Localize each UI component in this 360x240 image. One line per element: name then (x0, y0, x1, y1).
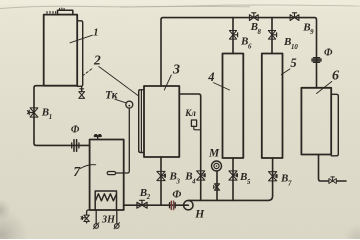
svg-text:Тк: Тк (105, 90, 119, 102)
svg-text:5: 5 (290, 56, 296, 70)
svg-text:Ф: Ф (172, 189, 181, 200)
svg-text:1: 1 (93, 27, 98, 38)
svg-text:6: 6 (332, 68, 339, 83)
svg-text:Ф: Ф (71, 125, 80, 136)
svg-text:ЗН: ЗН (101, 214, 116, 225)
svg-text:М: М (208, 148, 220, 160)
svg-text:Н: Н (194, 209, 205, 221)
svg-text:3: 3 (172, 63, 180, 78)
svg-text:Кл: Кл (184, 108, 196, 118)
svg-text:Ф: Ф (324, 47, 333, 58)
svg-text:2: 2 (93, 52, 101, 67)
svg-text:4: 4 (207, 70, 214, 84)
